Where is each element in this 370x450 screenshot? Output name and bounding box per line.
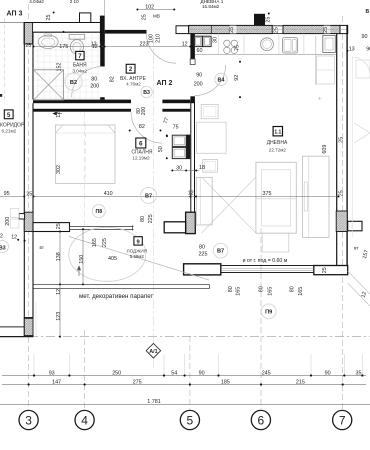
section axis vertical A/1 bbox=[152, 36, 154, 343]
svg-text:1.1: 1.1 bbox=[274, 130, 281, 136]
wall hatch column top-left (25cm) bbox=[24, 23, 33, 45]
svg-text:25: 25 bbox=[229, 27, 235, 33]
tick left edge bbox=[0, 94, 2, 97]
room box 5 corridor bbox=[4, 110, 13, 119]
dim dot 92 kitchen bbox=[239, 61, 241, 63]
AP1 faint vertical line bbox=[351, 57, 353, 237]
svg-text:75: 75 bbox=[235, 45, 241, 51]
svg-text:12: 12 bbox=[56, 289, 62, 295]
wall east side pillar bbox=[348, 221, 362, 231]
dim row 2 dots bbox=[28, 383, 30, 385]
dim row 3 line bbox=[0, 404, 370, 406]
wall bedroom south white piece west bbox=[33, 223, 70, 232]
svg-text:В3: В3 bbox=[0, 245, 6, 251]
loggia diagonal line bbox=[69, 237, 209, 281]
svg-text:165: 165 bbox=[267, 287, 273, 296]
svg-text:185: 185 bbox=[221, 380, 230, 386]
wall vent gap white block bbox=[272, 26, 283, 34]
svg-text:223: 223 bbox=[140, 42, 149, 48]
table west bbox=[196, 122, 226, 153]
wall bath east upper black bbox=[100, 32, 105, 66]
kitchen cabinet box 1 bbox=[194, 36, 202, 46]
svg-text:и от г. под = 0.60 м: и от г. под = 0.60 м bbox=[243, 258, 288, 264]
svg-text:22.72м2: 22.72м2 bbox=[269, 148, 287, 153]
svg-text:30: 30 bbox=[176, 165, 182, 171]
marker circle B3 bbox=[141, 86, 152, 97]
svg-text:165: 165 bbox=[92, 238, 98, 247]
window bedroom-loggia line 1 bbox=[70, 226, 134, 228]
svg-text:18: 18 bbox=[199, 165, 205, 171]
dim line 223 antre bbox=[34, 46, 191, 48]
fridge east top bbox=[323, 36, 336, 53]
room box 9 loggia bbox=[134, 237, 142, 245]
kitchen east counter line bbox=[315, 36, 317, 85]
wall AP3 top line continuation bbox=[0, 22, 24, 24]
grid bubble 7 bbox=[333, 410, 352, 429]
svg-text:200: 200 bbox=[141, 107, 147, 116]
AP1 door triangles bbox=[354, 123, 370, 143]
svg-text:3: 3 bbox=[25, 413, 32, 427]
dim dot chimney 25 bbox=[268, 13, 270, 15]
grid bubble 5 bbox=[180, 410, 199, 429]
svg-text:В2: В2 bbox=[70, 80, 77, 86]
svg-text:123: 123 bbox=[56, 312, 62, 321]
room box 1 living bbox=[273, 127, 282, 136]
door arc bedroom bbox=[131, 112, 162, 143]
svg-text:82: 82 bbox=[110, 76, 116, 82]
grid bubble 6 bbox=[251, 410, 270, 429]
svg-text:200: 200 bbox=[194, 82, 203, 88]
svg-text:12: 12 bbox=[56, 112, 62, 118]
wall antre north bbox=[105, 30, 147, 34]
svg-text:12.19м2: 12.19м2 bbox=[132, 155, 150, 160]
svg-text:609: 609 bbox=[322, 145, 328, 154]
dining table bbox=[256, 162, 296, 233]
wall north axis dash-dot centerline bbox=[190, 29, 347, 31]
room box 2 antre bbox=[126, 64, 135, 73]
dim vertical loggia 150 bbox=[82, 229, 84, 284]
svg-text:95: 95 bbox=[4, 191, 10, 197]
svg-text:25: 25 bbox=[265, 17, 271, 23]
svg-text:АП 3: АП 3 bbox=[7, 11, 23, 18]
wall black block bedroom SE bbox=[186, 212, 196, 233]
svg-text:302: 302 bbox=[56, 165, 62, 174]
wall bedroom north segment left bbox=[33, 109, 131, 112]
svg-text:мет. декоративен парапет: мет. декоративен парапет bbox=[79, 293, 153, 300]
wall bath-antre south segment right bbox=[162, 100, 190, 104]
kitchen counter front edge bbox=[195, 53, 336, 55]
dim row 1 line bbox=[2, 375, 366, 377]
svg-text:165: 165 bbox=[298, 287, 304, 296]
round sink bbox=[261, 38, 274, 51]
svg-text:7: 7 bbox=[339, 413, 346, 427]
window band living south line bottom bbox=[221, 272, 314, 274]
rectangular sink bbox=[282, 38, 297, 53]
svg-text:200: 200 bbox=[5, 217, 11, 226]
wall east inner line lower bbox=[336, 232, 338, 266]
chair west 2 bbox=[203, 160, 218, 173]
svg-text:90: 90 bbox=[366, 47, 370, 53]
appliance stack lower (niche) bbox=[172, 147, 186, 158]
svg-text:410: 410 bbox=[104, 191, 113, 197]
grid bubble 3 bbox=[19, 410, 38, 429]
wall duct protrusion top-left bbox=[80, 13, 91, 23]
washbasin bathroom bbox=[38, 35, 58, 48]
section trace line bbox=[29, 336, 370, 338]
marker circle B2 bbox=[65, 73, 82, 90]
wall bath east lower black bbox=[100, 97, 105, 99]
svg-text:80: 80 bbox=[290, 286, 296, 292]
marker circle B4 bbox=[215, 73, 227, 85]
svg-text:245: 245 bbox=[262, 370, 271, 376]
svg-text:215: 215 bbox=[296, 380, 305, 386]
loggia parapet line 2 bbox=[34, 288, 210, 290]
svg-text:90: 90 bbox=[362, 34, 368, 40]
bathroom tile grid bbox=[37, 33, 39, 100]
svg-text:25: 25 bbox=[322, 267, 328, 273]
svg-text:25: 25 bbox=[26, 191, 32, 197]
loggia faint edge line bbox=[35, 302, 37, 335]
svg-text:93: 93 bbox=[49, 370, 55, 376]
svg-text:35: 35 bbox=[356, 370, 362, 376]
svg-text:12: 12 bbox=[11, 235, 17, 241]
wall west inner line loggia bbox=[32, 232, 34, 318]
svg-text:25: 25 bbox=[323, 27, 329, 33]
svg-text:92: 92 bbox=[234, 75, 240, 81]
svg-text:2: 2 bbox=[0, 234, 3, 240]
svg-text:250: 250 bbox=[112, 370, 121, 376]
svg-text:225: 225 bbox=[148, 214, 154, 223]
svg-text:80: 80 bbox=[259, 286, 265, 292]
bed headboard line bbox=[56, 132, 115, 134]
door arc bathroom bbox=[72, 67, 103, 98]
svg-text:138: 138 bbox=[56, 252, 62, 261]
grid bubble 4 bbox=[75, 410, 94, 429]
window band end ticks bbox=[220, 265, 222, 274]
svg-text:225: 225 bbox=[102, 238, 108, 247]
svg-text:25: 25 bbox=[339, 190, 345, 196]
AP1 faint furniture right bbox=[356, 60, 370, 78]
wall living north hatched segment 2 bbox=[283, 25, 340, 33]
dim line 95 corridor bbox=[0, 196, 24, 198]
svg-text:375: 375 bbox=[263, 191, 272, 197]
window band living south line top bbox=[221, 265, 314, 267]
wall bathroom north inner line bbox=[33, 31, 101, 33]
chair rect below table bbox=[262, 233, 289, 252]
shaft line to top bbox=[104, 0, 106, 16]
svg-text:82: 82 bbox=[139, 124, 145, 130]
window ticks bedroom-loggia bbox=[69, 225, 71, 230]
svg-text:П8: П8 bbox=[95, 209, 102, 215]
shower diagonals bbox=[34, 70, 64, 100]
sofa tall west bbox=[196, 177, 212, 225]
svg-text:80: 80 bbox=[199, 245, 205, 251]
svg-text:4.04м2: 4.04м2 bbox=[29, 0, 44, 4]
wall bedroom-living double line right bbox=[194, 102, 196, 213]
svg-text:12: 12 bbox=[91, 42, 97, 48]
svg-text:25: 25 bbox=[141, 14, 147, 20]
wall east inner line upper bbox=[336, 34, 338, 211]
dim row 2 line bbox=[2, 384, 366, 386]
svg-text:50: 50 bbox=[158, 146, 164, 152]
svg-text:90: 90 bbox=[199, 370, 205, 376]
svg-text:25: 25 bbox=[25, 43, 31, 49]
svg-text:6: 6 bbox=[139, 141, 143, 148]
wall east outer line bbox=[346, 25, 348, 274]
wall west handle square bbox=[19, 214, 25, 219]
svg-text:80: 80 bbox=[91, 76, 97, 82]
svg-text:4.76м2: 4.76м2 bbox=[126, 82, 141, 87]
marker circle P8 bbox=[92, 205, 105, 218]
window sill rect loggia-living corner bbox=[184, 264, 221, 275]
dim line bedroom-living 410/375 bbox=[34, 196, 339, 198]
grid axis 6 dashed line bbox=[260, 228, 262, 409]
door arc neighbour AP1 top right bbox=[352, 57, 370, 74]
svg-text:5.59м2: 5.59м2 bbox=[130, 254, 145, 259]
AP3 dashed edge line bbox=[4, 18, 6, 103]
svg-text:А/1: А/1 bbox=[149, 349, 157, 355]
kitchen cabinet box 2 bbox=[203, 36, 211, 46]
svg-text:В4: В4 bbox=[218, 77, 225, 83]
svg-text:150: 150 bbox=[79, 255, 85, 264]
door arc antre-living bbox=[195, 65, 226, 96]
svg-text:225: 225 bbox=[199, 252, 208, 258]
wall antre-living divider black bbox=[190, 34, 195, 59]
wall west end hatch block bbox=[24, 318, 33, 335]
section marker diamond A/1 bbox=[146, 343, 161, 358]
wall stub above bath wall bbox=[190, 96, 195, 103]
svg-text:АП 2: АП 2 bbox=[157, 80, 173, 87]
grid axis 3 dashed line bbox=[28, 4, 30, 409]
dim dot 13 right top bbox=[346, 50, 348, 52]
wall living north hatched segment 1 bbox=[189, 25, 273, 33]
svg-text:В7: В7 bbox=[145, 193, 152, 199]
svg-text:6: 6 bbox=[258, 413, 265, 427]
AP3 corridor radiator rects bbox=[11, 209, 19, 218]
svg-text:12: 12 bbox=[182, 42, 188, 48]
svg-text:80: 80 bbox=[140, 216, 146, 222]
appliance stack upper (niche) bbox=[172, 135, 186, 146]
marker circle B7 bedroom bbox=[141, 187, 157, 203]
wall cap white piece bbox=[190, 59, 195, 65]
loggia small arrow up bbox=[77, 266, 80, 276]
svg-text:13: 13 bbox=[349, 47, 355, 53]
bed bbox=[56, 125, 115, 183]
loggia parapet line 1 bbox=[34, 284, 210, 286]
dim 25 rotated on hatch band right bbox=[324, 26, 331, 34]
wall bedroom north segment right bbox=[162, 109, 190, 112]
grid axis 5 dashed line bbox=[189, 336, 191, 409]
svg-text:4: 4 bbox=[81, 413, 88, 427]
svg-text:200: 200 bbox=[90, 83, 99, 89]
wall south-east corner block bbox=[314, 266, 348, 275]
AP1 balcony diagonals bottom right bbox=[348, 271, 370, 294]
wall north-east corner white block bbox=[340, 25, 348, 33]
wall shaft black bar MV bbox=[100, 16, 105, 44]
svg-text:25: 25 bbox=[56, 223, 62, 229]
dim ticks 82 door bedroom bbox=[129, 130, 131, 132]
cross mark bbox=[318, 97, 321, 100]
wall west outer line bbox=[23, 23, 25, 337]
bed corner fold left bbox=[56, 126, 63, 134]
dim 25 rotated on hatch band bbox=[230, 26, 237, 34]
marker circle B7 living bbox=[213, 243, 228, 258]
toilet bathroom bbox=[69, 34, 84, 39]
dim line 102 top bbox=[137, 9, 174, 11]
dim row 1 dots bbox=[33, 374, 35, 376]
svg-text:102: 102 bbox=[145, 4, 154, 10]
wall east hatch block bbox=[336, 211, 347, 232]
svg-text:ДНЕВНА: ДНЕВНА bbox=[267, 140, 288, 146]
shower tray bbox=[34, 70, 64, 100]
kitchen counter divisions bbox=[218, 34, 220, 55]
dim row 1 extension lines bbox=[33, 354, 35, 376]
svg-text:152: 152 bbox=[57, 63, 63, 72]
window bedroom-loggia line 2 bbox=[70, 229, 134, 231]
svg-text:В3: В3 bbox=[143, 90, 150, 96]
east counter shelf bbox=[317, 56, 335, 84]
wall bathroom north outer line bbox=[24, 22, 100, 24]
svg-text:275: 275 bbox=[133, 380, 142, 386]
svg-text:210: 210 bbox=[156, 34, 162, 43]
room box 6 bedroom bbox=[136, 138, 146, 148]
svg-text:П9: П9 bbox=[265, 309, 272, 315]
wall west inner line bathroom bbox=[32, 32, 34, 99]
svg-text:12: 12 bbox=[188, 191, 194, 197]
wall west inner line bedroom bbox=[32, 103, 34, 222]
svg-text:МВ: МВ bbox=[153, 14, 160, 19]
svg-text:3.04м2: 3.04м2 bbox=[72, 69, 87, 74]
svg-text:147: 147 bbox=[52, 380, 61, 386]
svg-text:15.84м2: 15.84м2 bbox=[202, 4, 220, 9]
svg-text:25: 25 bbox=[46, 15, 52, 21]
svg-text:100: 100 bbox=[149, 34, 155, 43]
AP3 parapet return line bbox=[0, 326, 24, 328]
svg-text:ДНЕВНА 1: ДНЕВНА 1 bbox=[201, 0, 224, 4]
chair west 1 bbox=[201, 104, 218, 118]
svg-text:405: 405 bbox=[108, 256, 117, 262]
sofa-table cross diagonals bbox=[202, 177, 256, 233]
grid axis 4 dashed line bbox=[84, 330, 86, 409]
svg-text:В7: В7 bbox=[217, 249, 224, 255]
grid axis 7 dashed line bbox=[341, 16, 343, 409]
wall west separator line bbox=[24, 317, 34, 319]
svg-text:6.21м2: 6.21м2 bbox=[2, 128, 17, 133]
marker circle B3 left edge bbox=[0, 241, 9, 253]
north wall joint line bbox=[210, 25, 212, 33]
svg-text:80: 80 bbox=[228, 286, 234, 292]
marker circle P9 bbox=[261, 304, 276, 319]
wall bedroom-living double line left bbox=[190, 102, 192, 213]
wall nub right of appliances bbox=[186, 135, 190, 160]
dim dots left 12 bbox=[17, 239, 19, 241]
door arc apartment entry bbox=[147, 34, 177, 64]
svg-text:75: 75 bbox=[173, 125, 179, 131]
svg-text:В: В bbox=[366, 9, 370, 15]
svg-text:2 10: 2 10 bbox=[70, 0, 79, 4]
AP3 bottom edge line bbox=[0, 336, 33, 338]
dim line niche 30/18 bbox=[172, 170, 199, 172]
svg-text:90: 90 bbox=[325, 370, 331, 376]
dim vertical loggia 138/123 bbox=[59, 232, 61, 337]
svg-text:165: 165 bbox=[236, 287, 242, 296]
parapet end tick bbox=[209, 285, 211, 289]
chimney black block on north wall bbox=[254, 14, 265, 26]
bed center line bbox=[84, 125, 86, 183]
wall west hatch block bbox=[24, 212, 33, 231]
dim dots 50 appliances bbox=[166, 135, 168, 137]
svg-text:60: 60 bbox=[197, 48, 203, 54]
room box 7 bathroom bbox=[76, 51, 84, 59]
svg-text:54: 54 bbox=[171, 370, 177, 376]
dim dot 25 top-left bbox=[53, 12, 55, 14]
svg-text:25: 25 bbox=[339, 137, 345, 143]
arrow tick near 12 label bbox=[53, 112, 62, 115]
svg-text:25: 25 bbox=[274, 27, 280, 33]
window band mid lines bbox=[221, 267, 314, 269]
dim tick dot bath wall bbox=[63, 31, 65, 33]
bed corner fold right bbox=[108, 126, 115, 134]
loggia ellipse bbox=[69, 227, 146, 281]
svg-text:5: 5 bbox=[187, 413, 194, 427]
wall bath-antre south segment left bbox=[33, 100, 131, 104]
svg-text:1 781: 1 781 bbox=[147, 399, 161, 405]
wall bedroom south white piece east bbox=[164, 222, 185, 233]
tv cabinet east bbox=[302, 156, 329, 237]
wall lintel white piece before hatch bbox=[176, 26, 189, 34]
svg-text:175: 175 bbox=[59, 44, 68, 50]
svg-text:90: 90 bbox=[196, 73, 202, 79]
stove burners bbox=[224, 40, 230, 46]
svg-text:30: 30 bbox=[212, 37, 218, 43]
svg-text:ЛОДЖИЯ: ЛОДЖИЯ bbox=[127, 249, 147, 254]
